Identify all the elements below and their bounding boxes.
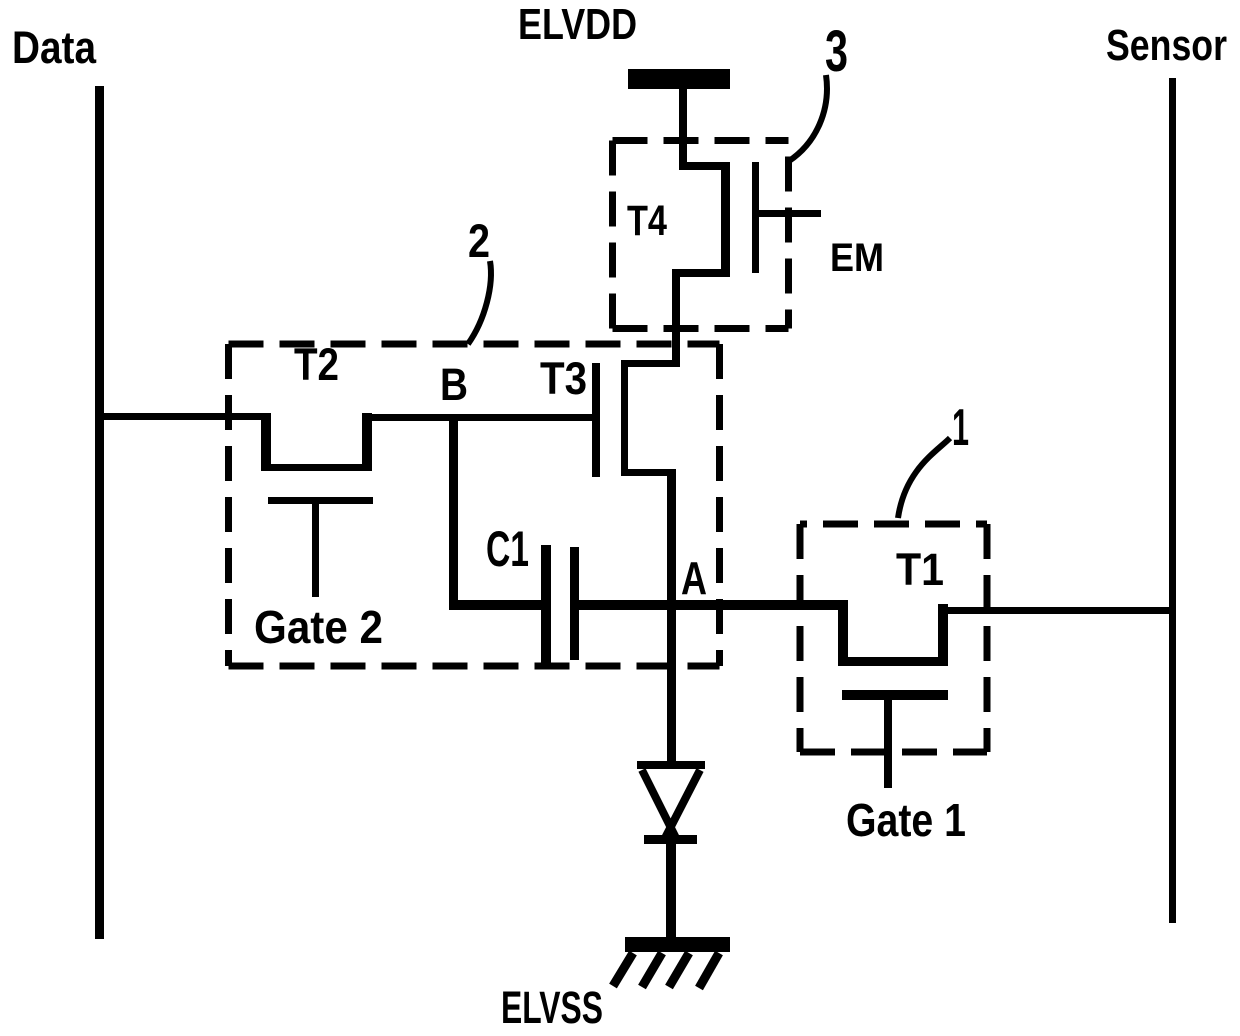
svg-text:EM: EM (830, 236, 884, 280)
svg-text:T4: T4 (627, 197, 667, 245)
svg-text:T2: T2 (294, 339, 339, 390)
svg-text:2: 2 (468, 214, 490, 267)
svg-text:3: 3 (825, 19, 848, 84)
svg-text:Data: Data (12, 22, 97, 73)
svg-text:Gate 2: Gate 2 (254, 601, 383, 653)
svg-text:B: B (440, 359, 468, 410)
svg-text:1: 1 (952, 399, 969, 457)
svg-text:C1: C1 (486, 521, 529, 577)
svg-text:ELVSS: ELVSS (501, 982, 603, 1033)
svg-text:T1: T1 (896, 544, 944, 595)
svg-text:A: A (681, 552, 707, 604)
svg-text:Sensor: Sensor (1106, 21, 1227, 70)
svg-text:Gate 1: Gate 1 (846, 794, 966, 846)
svg-text:T3: T3 (540, 353, 587, 404)
svg-text:ELVDD: ELVDD (518, 0, 637, 49)
